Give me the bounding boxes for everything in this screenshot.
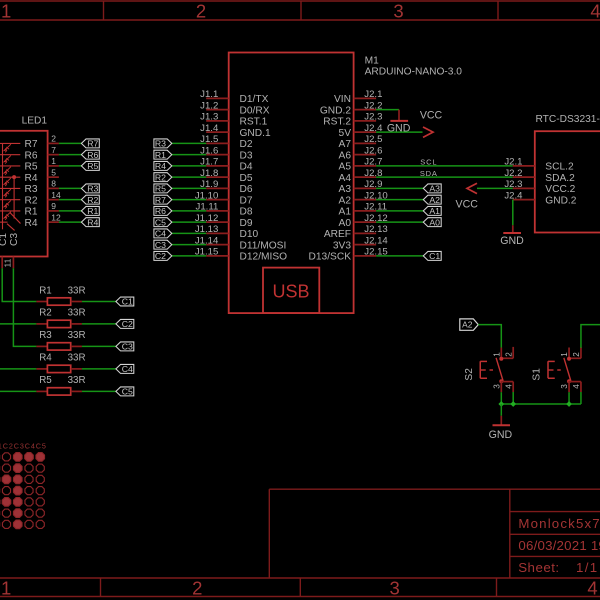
node A3 flag at J2.9 xyxy=(423,184,441,193)
LED1 bottom pin C3 stub xyxy=(12,257,14,269)
wire to R2 xyxy=(0,323,36,325)
svg-text:R5: R5 xyxy=(39,375,52,386)
svg-text:R1: R1 xyxy=(39,285,52,296)
svg-text:A2: A2 xyxy=(339,195,352,206)
module M1 ARDUINO-NANO-3.0 box xyxy=(229,53,354,314)
svg-text:C1: C1 xyxy=(0,233,9,246)
svg-text:R3: R3 xyxy=(39,330,52,341)
pin J2.13 stub xyxy=(354,232,377,234)
wire S2 pin4 down xyxy=(512,392,514,404)
wire R5 to C5 flag xyxy=(82,390,116,392)
svg-text:1: 1 xyxy=(560,352,569,357)
svg-text:33R: 33R xyxy=(68,375,86,386)
node R3 flag at J1.5 xyxy=(154,139,172,148)
VCC supply symbol at RTC xyxy=(467,183,477,193)
svg-text:A3: A3 xyxy=(429,184,440,194)
wire LED1 pin to R6 flag xyxy=(59,154,82,156)
wire S1 pin3 down xyxy=(568,392,570,404)
node C1 flag xyxy=(116,297,134,306)
svg-text:RTC-DS3231-S: RTC-DS3231-S xyxy=(536,114,600,125)
svg-text:R2: R2 xyxy=(155,172,166,182)
svg-text:R7: R7 xyxy=(155,195,166,205)
svg-text:J2.1: J2.1 xyxy=(504,157,522,168)
LED symbol row R1 xyxy=(4,212,11,218)
pin J1.3 stub xyxy=(206,120,229,122)
svg-text:3: 3 xyxy=(560,384,569,389)
ground symbol at switches xyxy=(500,416,502,425)
svg-text:A6: A6 xyxy=(339,150,352,161)
svg-text:J1.4: J1.4 xyxy=(200,123,219,134)
RTC pin J2.2 stub xyxy=(513,176,535,178)
pin J1.5 stub xyxy=(206,142,229,144)
svg-text:J2.2: J2.2 xyxy=(504,168,522,179)
wire to R5 xyxy=(0,390,36,392)
title block outline xyxy=(268,489,270,578)
svg-text:SCL.2: SCL.2 xyxy=(545,162,574,173)
svg-text:D6: D6 xyxy=(240,184,253,195)
svg-text:2: 2 xyxy=(192,577,202,598)
svg-text:R6: R6 xyxy=(87,150,98,160)
svg-text:R4: R4 xyxy=(24,218,37,229)
node C2 flag at J1.15 xyxy=(154,251,172,260)
resistor R5 xyxy=(36,390,47,392)
svg-text:J2.6: J2.6 xyxy=(364,145,382,156)
LED symbol row R2 xyxy=(4,200,11,206)
node R2 flag at LED1 xyxy=(81,195,99,204)
wire to J1.10 xyxy=(172,199,206,201)
svg-text:GND.2: GND.2 xyxy=(545,195,576,206)
svg-text:GND.2: GND.2 xyxy=(320,105,351,116)
wire RTC VCC xyxy=(477,187,513,189)
svg-text:9: 9 xyxy=(51,201,56,211)
junction S2 pin3 xyxy=(498,401,504,407)
svg-text:R3: R3 xyxy=(87,184,98,194)
wire to J1.12 xyxy=(172,221,206,223)
svg-text:C4: C4 xyxy=(122,364,133,374)
svg-text:D2: D2 xyxy=(240,139,253,150)
svg-text:C5: C5 xyxy=(122,387,133,397)
svg-text:12: 12 xyxy=(51,212,61,222)
svg-text:R5: R5 xyxy=(155,184,166,194)
node R6 flag at LED1 xyxy=(81,150,99,159)
wire R1 to C1 flag xyxy=(82,301,116,303)
node R5 flag at LED1 xyxy=(81,161,99,170)
pin J2.2 stub xyxy=(354,109,377,111)
wire C3 to R3 xyxy=(13,268,36,346)
svg-text:2: 2 xyxy=(572,352,581,357)
LED1 row line R7 xyxy=(0,142,20,144)
svg-text:D4: D4 xyxy=(240,162,253,173)
svg-text:R1: R1 xyxy=(155,150,166,160)
svg-text:D7: D7 xyxy=(240,195,253,206)
USB connector box xyxy=(263,268,319,314)
svg-text:A2: A2 xyxy=(429,195,440,205)
svg-text:J1.3: J1.3 xyxy=(200,112,218,123)
svg-text:VCC.2: VCC.2 xyxy=(545,184,575,195)
junction S2 pin4 xyxy=(510,401,516,407)
wire to J1.9 xyxy=(172,187,206,189)
wire to J1.15 xyxy=(172,255,206,257)
pin J1.4 stub xyxy=(206,131,229,133)
pin J1.14 stub xyxy=(206,244,229,246)
svg-text:R2: R2 xyxy=(39,308,52,319)
svg-text:C1: C1 xyxy=(122,297,133,307)
svg-text:5: 5 xyxy=(51,167,56,177)
svg-text:1: 1 xyxy=(1,577,11,598)
svg-text:2: 2 xyxy=(196,0,206,21)
LED1 row line R6 xyxy=(0,154,20,156)
LED1 pin 7 stub xyxy=(48,154,59,156)
pin J2.12 stub xyxy=(354,221,377,223)
node R7 flag at LED1 xyxy=(81,139,99,148)
svg-text:2: 2 xyxy=(504,352,513,357)
svg-text:Monlock5x7: Monlock5x7 xyxy=(518,516,600,531)
pin J1.6 stub xyxy=(206,154,229,156)
svg-text:2: 2 xyxy=(51,134,56,144)
svg-text:R3: R3 xyxy=(155,139,166,149)
svg-text:D3: D3 xyxy=(240,150,253,161)
wire LED1 pin to R3 flag xyxy=(59,187,82,189)
svg-text:S1: S1 xyxy=(532,368,543,381)
svg-text:J2.5: J2.5 xyxy=(364,134,382,145)
wire S2 pin3 down xyxy=(500,392,502,404)
svg-text:SDA.2: SDA.2 xyxy=(545,173,575,184)
RTC pin J2.3 stub xyxy=(513,187,535,189)
node C1 flag at J2.15 xyxy=(423,251,441,260)
pin J2.10 stub xyxy=(354,199,377,201)
svg-text:R1: R1 xyxy=(24,207,37,218)
svg-text:RST.2: RST.2 xyxy=(323,117,351,128)
node R1 flag at J1.6 xyxy=(154,150,172,159)
svg-text:D11/MOSI: D11/MOSI xyxy=(240,240,287,251)
wire A2 to S2 pin1 xyxy=(478,325,501,348)
wire to J1.14 xyxy=(172,244,206,246)
svg-text:D1/TX: D1/TX xyxy=(240,94,269,105)
svg-text:AREF: AREF xyxy=(324,229,351,240)
LED1 pin 5 stub xyxy=(48,176,59,178)
svg-text:C1C2C3C4C5: C1C2C3C4C5 xyxy=(0,441,47,450)
wire from J2.12 xyxy=(376,221,423,223)
svg-text:C4: C4 xyxy=(155,229,166,239)
resistor R2 xyxy=(36,323,47,325)
svg-text:S2: S2 xyxy=(464,368,475,381)
wire from J2.15 xyxy=(376,255,423,257)
svg-text:4: 4 xyxy=(572,384,581,389)
svg-text:C5: C5 xyxy=(155,217,166,227)
svg-text:A1: A1 xyxy=(339,207,352,218)
svg-text:14: 14 xyxy=(51,190,61,200)
node R7 flag at J1.10 xyxy=(154,195,172,204)
pin J2.14 stub xyxy=(354,244,377,246)
LED symbol row R7 xyxy=(4,144,11,150)
resistor R3 xyxy=(36,345,47,347)
LED1 row line R4 xyxy=(0,221,8,223)
svg-text:R5: R5 xyxy=(87,161,98,171)
LED1 pin 8 stub xyxy=(48,187,59,189)
svg-text:11: 11 xyxy=(3,258,13,267)
wire to J1.13 xyxy=(172,232,206,234)
svg-text:C3: C3 xyxy=(122,342,133,352)
wire LED1 pin to R2 flag xyxy=(59,199,82,201)
wire LED1 pin to R7 flag xyxy=(59,142,82,144)
RTC pin J2.1 stub xyxy=(513,165,535,167)
svg-text:GND: GND xyxy=(500,235,524,247)
svg-text:RST.1: RST.1 xyxy=(240,117,268,128)
svg-text:A1: A1 xyxy=(429,206,440,216)
svg-text:R4: R4 xyxy=(24,173,37,184)
pin J1.8 stub xyxy=(206,176,229,178)
LED matrix LED1 box xyxy=(0,131,48,257)
wire to J1.5 xyxy=(172,142,206,144)
wire SDA xyxy=(376,176,513,178)
svg-text:33R: 33R xyxy=(68,308,86,319)
svg-text:R4: R4 xyxy=(87,217,98,227)
resistor R1 xyxy=(36,301,47,303)
svg-text:1/1: 1/1 xyxy=(576,560,598,575)
wire from J2.11 xyxy=(376,210,423,212)
svg-text:J1.2: J1.2 xyxy=(200,100,218,111)
wire J2.4 to VCC xyxy=(376,131,422,133)
svg-text:R7: R7 xyxy=(24,139,37,150)
svg-text:D13/SCK: D13/SCK xyxy=(309,252,352,263)
svg-text:D10: D10 xyxy=(240,229,259,240)
LED symbol row R4 xyxy=(4,178,11,184)
wire S1 pin2 to edge xyxy=(581,325,600,348)
pin J1.15 stub xyxy=(206,255,229,257)
svg-text:VCC: VCC xyxy=(456,199,479,211)
svg-text:C3: C3 xyxy=(9,233,20,246)
wire to J1.8 xyxy=(172,176,206,178)
svg-text:33R: 33R xyxy=(68,285,86,296)
svg-text:R1: R1 xyxy=(87,206,98,216)
pin J1.13 stub xyxy=(206,232,229,234)
node R4 flag at J1.7 xyxy=(154,161,172,170)
svg-text:VCC: VCC xyxy=(420,110,443,122)
svg-text:C1: C1 xyxy=(429,251,440,261)
wire SCL xyxy=(376,165,513,167)
svg-text:4: 4 xyxy=(590,0,600,21)
node C4 flag at J1.13 xyxy=(154,229,172,238)
LED symbol row R5 xyxy=(4,167,11,173)
svg-text:R3: R3 xyxy=(24,184,37,195)
svg-text:5V: 5V xyxy=(339,128,352,139)
svg-text:GND: GND xyxy=(489,429,513,441)
svg-text:J2.3: J2.3 xyxy=(364,112,382,123)
pin J2.7 stub xyxy=(354,165,377,167)
pin J1.7 stub xyxy=(206,165,229,167)
svg-text:1: 1 xyxy=(492,352,501,357)
svg-text:D9: D9 xyxy=(240,218,253,229)
LED1 pin 14 stub xyxy=(48,199,59,201)
node R4 flag at LED1 xyxy=(81,218,99,227)
wire bus to ground xyxy=(500,404,502,416)
svg-text:R4: R4 xyxy=(39,353,52,364)
switch S2 pushbutton xyxy=(500,348,502,359)
ground symbol at RTC xyxy=(512,225,514,233)
wire LED1 pin to R4 flag xyxy=(59,221,82,223)
wire C1 to R1 xyxy=(2,268,36,301)
LED1 row line R4 xyxy=(0,176,20,178)
LED1 internal diagonal 1 xyxy=(10,213,21,224)
node C3 flag at J1.14 xyxy=(154,240,172,249)
wire R4 to C4 flag xyxy=(82,368,116,370)
LED1 column bus C3 xyxy=(13,177,15,218)
pin J1.11 stub xyxy=(206,210,229,212)
switch S1 pushbutton xyxy=(568,348,570,359)
svg-text:4: 4 xyxy=(504,384,513,389)
wire LED1 pin to R5 flag xyxy=(59,165,82,167)
wire to J1.7 xyxy=(172,165,206,167)
svg-text:R4: R4 xyxy=(155,161,166,171)
LED1 pin 12 stub xyxy=(48,221,59,223)
node R6 flag at J1.11 xyxy=(154,206,172,215)
LED1 internal diagonal 2 xyxy=(7,224,15,231)
ground symbol at J2.2 xyxy=(398,110,400,121)
LED1 row line R1 xyxy=(0,210,20,212)
wire to J1.6 xyxy=(172,154,206,156)
svg-text:SCL: SCL xyxy=(420,158,437,167)
node A1 flag at J2.11 xyxy=(423,206,441,215)
svg-text:J1.1: J1.1 xyxy=(200,89,218,100)
svg-text:A3: A3 xyxy=(339,184,352,195)
wire RTC GND xyxy=(512,200,514,226)
LED1 bottom pin C1 stub xyxy=(1,257,3,269)
frame border bands xyxy=(0,0,600,2)
wire R3 to C3 flag xyxy=(82,345,116,347)
svg-text:33R: 33R xyxy=(68,353,86,364)
svg-text:A5: A5 xyxy=(339,162,352,173)
node R3 flag at LED1 xyxy=(81,184,99,193)
wire from J2.10 xyxy=(376,199,423,201)
svg-text:A4: A4 xyxy=(339,173,352,184)
svg-text:VIN: VIN xyxy=(334,94,351,105)
node C3 flag xyxy=(116,342,134,351)
svg-text:GND.1: GND.1 xyxy=(240,128,271,139)
wire switch bottom bus xyxy=(501,403,581,405)
pin J2.5 stub xyxy=(354,142,377,144)
svg-text:C2: C2 xyxy=(155,251,166,261)
svg-text:3V3: 3V3 xyxy=(333,240,351,251)
node A2 flag xyxy=(460,319,479,330)
LED symbol row R3 xyxy=(4,189,11,195)
svg-text:33R: 33R xyxy=(68,330,86,341)
LED1 pin 2 stub xyxy=(48,142,59,144)
junction S1 pin3 xyxy=(566,401,572,407)
VCC supply symbol at J2.4 xyxy=(423,127,433,137)
pin J2.4 stub xyxy=(354,131,377,133)
svg-text:R2: R2 xyxy=(24,195,37,206)
LED1 row line R5 xyxy=(0,165,20,167)
node C4 flag xyxy=(116,364,134,373)
svg-text:R6: R6 xyxy=(155,206,166,216)
LED1 column bus C1 xyxy=(2,143,4,229)
wire S1 pin4 down xyxy=(580,392,582,404)
svg-text:J2.14: J2.14 xyxy=(364,235,388,246)
svg-text:R5: R5 xyxy=(24,162,37,173)
wire LED1 pin to R1 flag xyxy=(59,210,82,212)
LED1 row line R3 xyxy=(0,187,20,189)
svg-text:A0: A0 xyxy=(429,217,440,227)
svg-text:1: 1 xyxy=(1,0,11,21)
svg-text:A0: A0 xyxy=(339,218,352,229)
svg-text:8: 8 xyxy=(51,179,56,189)
svg-text:J2.1: J2.1 xyxy=(364,89,382,100)
pin J2.9 stub xyxy=(354,187,377,189)
svg-text:D5: D5 xyxy=(240,173,253,184)
wire J2.2 to ground xyxy=(376,109,399,111)
resistor R4 xyxy=(36,368,47,370)
RTC pin J2.4 stub xyxy=(513,199,535,201)
svg-text:C2: C2 xyxy=(122,319,133,329)
pin J1.10 stub xyxy=(206,199,229,201)
svg-text:LED1: LED1 xyxy=(22,116,48,127)
svg-text:3: 3 xyxy=(393,0,403,21)
LED1 pin 9 stub xyxy=(48,210,59,212)
wire from J2.9 xyxy=(376,187,423,189)
svg-text:J2.4: J2.4 xyxy=(504,190,523,201)
svg-text:C3: C3 xyxy=(155,240,166,250)
LED1 pin 1 stub xyxy=(48,165,59,167)
node C5 flag xyxy=(116,387,134,396)
pin J2.3 stub xyxy=(354,120,377,122)
pin J2.6 stub xyxy=(354,154,377,156)
RTC-DS3231 box xyxy=(535,131,600,232)
svg-text:R7: R7 xyxy=(87,139,98,149)
LED1 bus junction xyxy=(12,175,16,179)
pin J2.15 stub xyxy=(354,255,377,257)
wire to J1.11 xyxy=(172,210,206,212)
svg-text:R2: R2 xyxy=(87,195,98,205)
node R2 flag at J1.8 xyxy=(154,173,172,182)
pin J1.9 stub xyxy=(206,187,229,189)
wire R2 to C2 flag xyxy=(82,323,116,325)
svg-text:USB: USB xyxy=(272,281,309,301)
pin J1.12 stub xyxy=(206,221,229,223)
svg-text:06/03/2021 19:30: 06/03/2021 19:30 xyxy=(518,538,600,553)
node A0 flag at J2.12 xyxy=(423,218,441,227)
wire to R4 xyxy=(0,368,36,370)
svg-text:D0/RX: D0/RX xyxy=(240,105,270,116)
svg-text:3: 3 xyxy=(492,384,501,389)
pin J1.2 stub xyxy=(206,109,229,111)
svg-text:D8: D8 xyxy=(240,207,253,218)
svg-text:R6: R6 xyxy=(24,150,37,161)
LED symbol row R6 xyxy=(4,155,11,161)
svg-text:D12/MISO: D12/MISO xyxy=(240,252,288,263)
pin J2.1 stub xyxy=(354,97,377,99)
node C2 flag xyxy=(116,319,134,328)
svg-text:J2.13: J2.13 xyxy=(364,224,387,235)
node A2 flag at J2.10 xyxy=(423,195,441,204)
pin J2.8 stub xyxy=(354,176,377,178)
pin J1.1 stub xyxy=(206,97,229,99)
svg-text:A7: A7 xyxy=(339,139,352,150)
svg-text:M1: M1 xyxy=(365,56,379,67)
svg-text:A2: A2 xyxy=(462,320,473,330)
svg-text:1: 1 xyxy=(51,156,56,166)
svg-text:ARDUINO-NANO-3.0: ARDUINO-NANO-3.0 xyxy=(365,66,463,77)
svg-text:3: 3 xyxy=(389,577,399,598)
node R5 flag at J1.9 xyxy=(154,184,172,193)
node R1 flag at LED1 xyxy=(81,206,99,215)
svg-text:4: 4 xyxy=(587,577,597,598)
svg-text:Sheet:: Sheet: xyxy=(518,560,559,575)
svg-text:7: 7 xyxy=(51,145,56,155)
pin J2.11 stub xyxy=(354,210,377,212)
svg-text:SDA: SDA xyxy=(420,169,438,178)
LED1 row line R2 xyxy=(0,199,20,201)
node C5 flag at J1.12 xyxy=(154,218,172,227)
